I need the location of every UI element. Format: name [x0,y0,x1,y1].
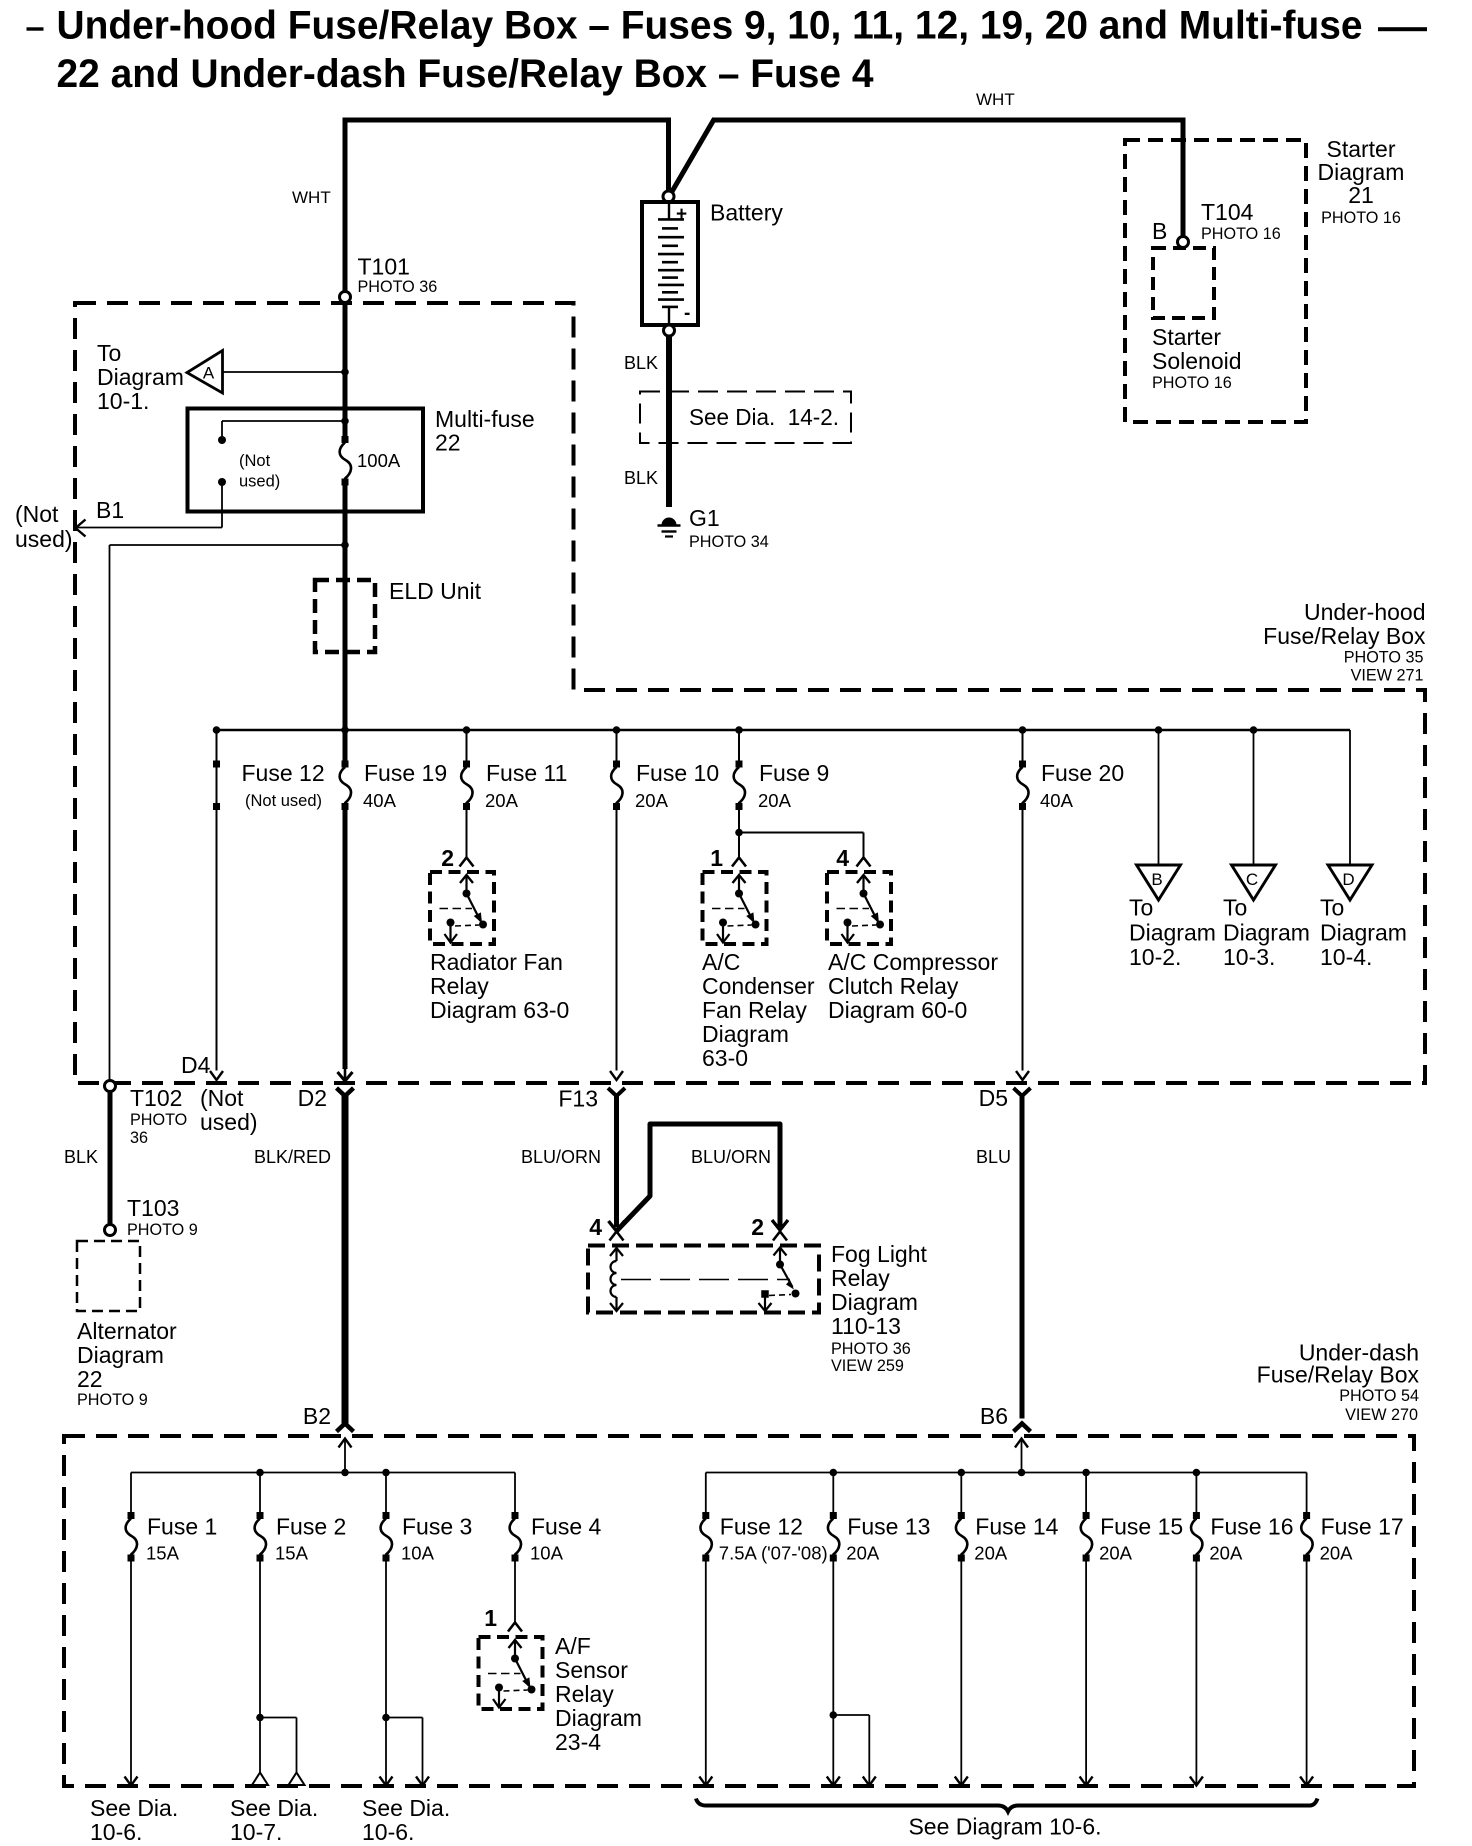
svg-text:Fuse 15: Fuse 15 [1100,1514,1183,1540]
svg-text:Fuse 11: Fuse 11 [486,760,567,786]
svg-text:See Diagram 10-6.: See Diagram 10-6. [908,1814,1101,1840]
svg-text:4: 4 [836,845,849,871]
svg-text:+: + [676,204,687,225]
svg-text:110-13: 110-13 [831,1313,901,1339]
svg-text:PHOTO 35: PHOTO 35 [1344,649,1424,667]
svg-text:40A: 40A [363,790,397,811]
svg-text:10-6.: 10-6. [362,1819,414,1845]
svg-text:BLK: BLK [624,353,658,373]
svg-text:WHT: WHT [976,90,1015,109]
svg-text:A/F: A/F [555,1633,591,1659]
svg-text:10A: 10A [401,1543,435,1564]
svg-text:Fuse 17: Fuse 17 [1321,1514,1404,1540]
svg-text:To: To [1129,895,1153,921]
svg-text:20A: 20A [1209,1543,1243,1564]
svg-text:See Dia.: See Dia. [90,1795,178,1821]
svg-text:22: 22 [77,1366,103,1392]
svg-text:Fuse 1: Fuse 1 [147,1514,217,1540]
svg-text:40A: 40A [1040,790,1074,811]
svg-text:See Dia.: See Dia. [230,1795,318,1821]
svg-text:(Not used): (Not used) [245,792,322,810]
svg-text:Radiator Fan: Radiator Fan [430,949,563,975]
svg-text:Fuse 19: Fuse 19 [364,760,447,786]
svg-text:BLU: BLU [976,1147,1011,1167]
svg-text:36: 36 [130,1129,148,1147]
svg-text:PHOTO 36: PHOTO 36 [831,1340,911,1358]
svg-text:Alternator: Alternator [77,1318,177,1344]
svg-text:(Not: (Not [239,452,271,470]
svg-text:(Not: (Not [15,501,59,527]
svg-text:Starter: Starter [1152,324,1221,350]
svg-text:10-6.: 10-6. [90,1819,142,1845]
svg-text:Diagram: Diagram [831,1289,918,1315]
svg-text:Fuse 9: Fuse 9 [759,760,829,786]
svg-text:10-2.: 10-2. [1129,944,1181,970]
svg-text:20A: 20A [846,1543,880,1564]
svg-text:Under-hood Fuse/Relay Box – Fu: Under-hood Fuse/Relay Box – Fuses 9, 10,… [57,4,1363,48]
svg-text:1: 1 [710,845,723,871]
svg-text:15A: 15A [146,1543,180,1564]
svg-text:VIEW 270: VIEW 270 [1345,1406,1418,1424]
svg-text:PHOTO 16: PHOTO 16 [1201,225,1281,243]
svg-text:Fog Light: Fog Light [831,1241,928,1267]
svg-text:Diagram: Diagram [1320,920,1407,946]
svg-text:T101: T101 [358,254,410,280]
svg-text:PHOTO 9: PHOTO 9 [77,1391,148,1409]
svg-text:Fuse 12: Fuse 12 [242,760,325,786]
svg-text:Fuse 12: Fuse 12 [720,1514,803,1540]
svg-text:Fuse 2: Fuse 2 [276,1514,346,1540]
svg-text:20A: 20A [485,790,519,811]
svg-text:PHOTO 9: PHOTO 9 [127,1221,198,1239]
svg-text:10A: 10A [530,1543,564,1564]
svg-text:Fuse 20: Fuse 20 [1041,760,1124,786]
svg-text:To: To [1223,895,1247,921]
svg-text:T102: T102 [130,1085,182,1111]
svg-text:Condenser: Condenser [702,973,815,999]
svg-text:PHOTO 16: PHOTO 16 [1152,374,1232,392]
svg-text:See Dia.: See Dia. [362,1795,450,1821]
svg-text:used): used) [200,1109,258,1135]
svg-text:T103: T103 [127,1195,179,1221]
svg-text:Diagram: Diagram [1129,920,1216,946]
svg-text:D2: D2 [298,1085,327,1111]
svg-text:Diagram: Diagram [97,364,184,390]
svg-text:22: 22 [435,430,461,456]
svg-text:20A: 20A [758,790,792,811]
svg-text:Clutch Relay: Clutch Relay [828,973,959,999]
svg-text:PHOTO 16: PHOTO 16 [1321,209,1401,227]
svg-text:B1: B1 [96,497,124,523]
svg-text:D4: D4 [181,1052,211,1078]
svg-text:B: B [1151,870,1162,889]
svg-text:Solenoid: Solenoid [1152,348,1242,374]
svg-text:BLU/ORN: BLU/ORN [521,1147,601,1167]
svg-text:Fuse 4: Fuse 4 [531,1514,602,1540]
svg-text:2: 2 [441,845,454,871]
svg-text:Fuse/Relay Box: Fuse/Relay Box [1257,1362,1420,1388]
svg-text:Fuse 10: Fuse 10 [636,760,719,786]
svg-text:Diagram: Diagram [1223,920,1310,946]
svg-text:Fuse 16: Fuse 16 [1210,1514,1293,1540]
svg-text:20A: 20A [974,1543,1008,1564]
svg-text:BLU/ORN: BLU/ORN [691,1147,771,1167]
svg-text:20A: 20A [1320,1543,1354,1564]
svg-text:BLK: BLK [64,1147,98,1167]
svg-text:VIEW 271: VIEW 271 [1351,667,1424,685]
svg-text:63-0: 63-0 [702,1045,748,1071]
svg-text:Fuse 14: Fuse 14 [975,1514,1058,1540]
svg-text:A: A [203,364,215,383]
svg-text:1: 1 [484,1605,497,1631]
svg-text:10-1.: 10-1. [97,388,149,414]
svg-text:Under-hood: Under-hood [1304,599,1425,625]
svg-text:20A: 20A [1099,1543,1133,1564]
svg-text:F13: F13 [558,1086,598,1112]
svg-text:Diagram 60-0: Diagram 60-0 [828,997,967,1023]
svg-text:10-4.: 10-4. [1320,944,1372,970]
svg-text:2: 2 [751,1214,764,1240]
svg-text:4: 4 [589,1214,602,1240]
svg-text:B2: B2 [303,1403,331,1429]
svg-text:23-4: 23-4 [555,1729,601,1755]
svg-text:Fuse 3: Fuse 3 [402,1514,472,1540]
svg-text:Relay: Relay [555,1681,614,1707]
svg-text:See Dia. 14-2.: See Dia. 14-2. [689,404,839,430]
svg-text:used): used) [239,473,280,491]
svg-text:To: To [97,340,121,366]
svg-text:B6: B6 [980,1403,1008,1429]
svg-text:Multi-fuse: Multi-fuse [435,406,535,432]
svg-text:G1: G1 [689,505,720,531]
svg-text:VIEW 259: VIEW 259 [831,1357,904,1375]
svg-text:Relay: Relay [430,973,489,999]
svg-text:C: C [1246,870,1258,889]
svg-text:WHT: WHT [292,188,331,207]
svg-text:A/C: A/C [702,949,740,975]
svg-text:D: D [1342,870,1354,889]
svg-text:BLK: BLK [624,468,658,488]
svg-text:To: To [1320,895,1344,921]
svg-text:A/C Compressor: A/C Compressor [828,949,998,975]
svg-text:Diagram: Diagram [702,1021,789,1047]
svg-text:Relay: Relay [831,1265,890,1291]
svg-text:Diagram 63-0: Diagram 63-0 [430,997,569,1023]
svg-text:Battery: Battery [710,200,783,226]
svg-text:PHOTO 54: PHOTO 54 [1339,1387,1419,1405]
svg-text:Fuse 13: Fuse 13 [847,1514,930,1540]
svg-text:15A: 15A [275,1543,309,1564]
svg-text:Fan Relay: Fan Relay [702,997,807,1023]
svg-text:Sensor: Sensor [555,1657,628,1683]
svg-text:PHOTO 36: PHOTO 36 [358,278,438,296]
svg-text:10-7.: 10-7. [230,1819,282,1845]
svg-text:(Not: (Not [200,1085,244,1111]
svg-text:Diagram: Diagram [555,1705,642,1731]
svg-text:100A: 100A [357,450,401,471]
svg-text:B: B [1152,218,1167,244]
svg-text:-: - [684,303,690,324]
svg-text:D5: D5 [979,1085,1008,1111]
svg-text:BLK/RED: BLK/RED [254,1147,331,1167]
svg-text:PHOTO: PHOTO [130,1111,187,1129]
svg-text:T104: T104 [1201,199,1254,225]
svg-text:10-3.: 10-3. [1223,944,1275,970]
svg-text:used): used) [15,526,73,552]
svg-text:21: 21 [1348,182,1374,208]
svg-text:Diagram: Diagram [77,1342,164,1368]
svg-text:22 and Under-dash Fuse/Relay B: 22 and Under-dash Fuse/Relay Box – Fuse … [57,52,875,96]
svg-text:PHOTO 34: PHOTO 34 [689,533,769,551]
svg-text:Fuse/Relay Box: Fuse/Relay Box [1263,623,1426,649]
svg-text:7.5A ('07-'08): 7.5A ('07-'08) [719,1543,828,1564]
svg-text:ELD Unit: ELD Unit [389,578,482,604]
svg-text:20A: 20A [635,790,669,811]
